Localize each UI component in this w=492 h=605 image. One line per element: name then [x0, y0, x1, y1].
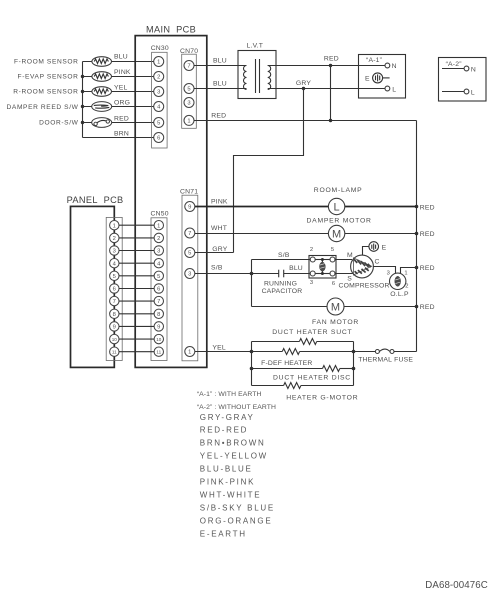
svg-text:L: L [392, 86, 396, 93]
wire S/B to relay pin2 [252, 259, 311, 261]
svg-text:THERMAL FUSE: THERMAL FUSE [358, 356, 413, 363]
sensor R-ROOM thermistor [92, 87, 112, 97]
svg-text:M: M [331, 302, 340, 314]
svg-text:RED: RED [211, 113, 226, 120]
node RED bottom junction [329, 119, 332, 122]
svg-text:MAIN PCB: MAIN PCB [146, 25, 196, 35]
node GRY junction [302, 87, 305, 90]
wire relay pin6 to compressor S [335, 273, 353, 275]
svg-text:RED: RED [324, 55, 339, 62]
wire RED LVT secondary top to A-1 N [268, 65, 385, 67]
svg-text:F-EVAP SENSOR: F-EVAP SENSOR [18, 74, 79, 81]
svg-text:PINK: PINK [114, 69, 131, 76]
connector CN30 [151, 45, 169, 148]
plug A-1 (with earth) [359, 55, 406, 99]
svg-text:RED: RED [420, 265, 435, 272]
svg-text:11: 11 [156, 350, 161, 355]
svg-text:FAN MOTOR: FAN MOTOR [312, 319, 359, 326]
node bus damper [415, 232, 419, 236]
svg-text:1: 1 [404, 270, 407, 276]
svg-text:GRY-GRAY: GRY-GRAY [200, 413, 255, 422]
svg-text:M: M [347, 252, 353, 259]
wire row1 to CN30-1 [83, 61, 154, 63]
wire GRY LVT secondary bottom to A-1 L [268, 88, 385, 90]
svg-text:7: 7 [113, 299, 116, 305]
svg-text:8: 8 [157, 312, 160, 318]
svg-text:CN71: CN71 [180, 188, 198, 195]
svg-text:CN30: CN30 [151, 45, 169, 52]
svg-text:8: 8 [113, 312, 116, 318]
svg-text:6: 6 [157, 287, 160, 293]
svg-text:C: C [375, 258, 380, 265]
svg-text:BLU-BLUE: BLU-BLUE [200, 465, 253, 474]
wire heater left vertical [251, 342, 253, 386]
svg-text:WHT-WHITE: WHT-WHITE [200, 491, 262, 500]
svg-text:E: E [365, 76, 370, 83]
svg-text:BRN: BRN [114, 131, 129, 138]
wire BRN bus to CN30-6 [83, 137, 154, 139]
wire PINK CN71-9 to bus (thick) [195, 206, 417, 208]
svg-text:9: 9 [113, 325, 116, 331]
svg-text:YEL: YEL [114, 84, 127, 91]
box MAIN PCB [135, 36, 207, 368]
svg-text:CAPACITOR: CAPACITOR [262, 288, 303, 295]
heater DUCT HEATER SUCT [252, 329, 354, 344]
svg-text:“A-2”: “A-2” [446, 61, 463, 68]
node heater right yel [352, 350, 356, 354]
svg-text:N: N [471, 66, 476, 73]
wire WHT CN71-7 to bus [195, 233, 417, 235]
sensor F-ROOM thermistor [92, 57, 112, 67]
wires PANEL to CN50 (11) [119, 225, 154, 352]
svg-text:CN70: CN70 [180, 48, 198, 55]
svg-text:5: 5 [157, 121, 160, 127]
svg-text:BLU: BLU [213, 81, 227, 88]
svg-text:DUCT HEATER SUCT: DUCT HEATER SUCT [272, 329, 352, 336]
svg-text:3: 3 [187, 101, 190, 107]
wire heater right vertical [353, 342, 355, 386]
svg-text:2: 2 [310, 247, 313, 253]
svg-text:“A-2” : WITHOUT EARTH: “A-2” : WITHOUT EARTH [197, 404, 276, 411]
node bus olp [415, 266, 419, 270]
node heater left yel [250, 350, 254, 354]
svg-text:ORG: ORG [114, 100, 130, 107]
svg-text:5: 5 [157, 274, 160, 280]
box PANEL PCB [71, 206, 115, 367]
svg-text:YEL: YEL [212, 345, 225, 352]
heater F-DEF HEATER [252, 349, 354, 368]
svg-text:3: 3 [157, 249, 160, 255]
svg-text:2: 2 [113, 236, 116, 242]
svg-text:3: 3 [387, 271, 390, 277]
svg-text:PINK-PINK: PINK-PINK [200, 478, 255, 487]
svg-text:5: 5 [331, 247, 334, 253]
earth E compressor [363, 242, 387, 255]
wire fan motor row [252, 306, 417, 308]
svg-text:10: 10 [156, 337, 162, 342]
svg-text:1: 1 [188, 350, 191, 356]
svg-text:2: 2 [157, 75, 160, 81]
switch DAMPER REED [92, 102, 112, 112]
fuse THERMAL FUSE [354, 349, 417, 363]
wire row2 to CN30-2 [83, 76, 154, 78]
svg-text:1: 1 [157, 60, 160, 66]
svg-text:5: 5 [187, 87, 190, 93]
wire common sensor bus [82, 62, 84, 138]
node heater left disc [250, 367, 254, 371]
sensor F-EVAP thermistor [92, 72, 112, 82]
svg-text:3: 3 [113, 249, 116, 255]
svg-text:DUCT HEATER DISC: DUCT HEATER DISC [273, 375, 351, 382]
svg-text:YEL-YELLOW: YEL-YELLOW [200, 452, 268, 461]
svg-text:7: 7 [188, 231, 191, 237]
svg-text:DAMPER REED S/W: DAMPER REED S/W [7, 104, 79, 111]
connector CN50 [151, 210, 169, 360]
svg-text:DA68-00476C: DA68-00476C [425, 580, 488, 591]
svg-text:BLU: BLU [213, 57, 227, 64]
connector CN70 [180, 48, 198, 129]
heater DUCT HEATER DISC [252, 366, 354, 382]
node bus-row2 [81, 75, 84, 78]
svg-text:RUNNING: RUNNING [264, 280, 297, 287]
svg-text:F-ROOM SENSOR: F-ROOM SENSOR [14, 59, 78, 66]
svg-text:ROOM-LAMP: ROOM-LAMP [314, 187, 363, 194]
svg-text:PINK: PINK [211, 199, 228, 206]
capacitor running [252, 265, 311, 295]
svg-text:7: 7 [157, 299, 160, 305]
svg-text:9: 9 [188, 205, 191, 211]
svg-text:6: 6 [157, 136, 160, 142]
svg-text:RED: RED [114, 115, 129, 122]
wire GRY vertical drop [234, 89, 304, 253]
wire S/B vertical [251, 260, 253, 307]
svg-text:F-DEF HEATER: F-DEF HEATER [261, 360, 312, 367]
svg-text:CN50: CN50 [151, 210, 169, 217]
wire row5 to CN30-5 [83, 122, 154, 124]
svg-text:3: 3 [157, 90, 160, 96]
wire compressor C to OLP and bus [373, 267, 395, 274]
svg-text:RED: RED [420, 304, 435, 311]
svg-text:1: 1 [113, 223, 116, 229]
svg-text:1: 1 [157, 223, 160, 229]
svg-text:7: 7 [187, 64, 190, 70]
svg-text:6: 6 [113, 287, 116, 293]
svg-text:3: 3 [188, 272, 191, 278]
svg-text:5: 5 [113, 274, 116, 280]
svg-text:E-EARTH: E-EARTH [200, 529, 247, 538]
svg-text:RED-RED: RED-RED [200, 426, 248, 435]
svg-text:S/B: S/B [278, 252, 290, 259]
svg-text:DAMPER MOTOR: DAMPER MOTOR [307, 217, 372, 224]
node bus fan [415, 305, 419, 309]
svg-text:L: L [334, 201, 340, 213]
svg-text:HEATER G-MOTOR: HEATER G-MOTOR [286, 394, 358, 401]
svg-text:BLU: BLU [114, 53, 128, 60]
heater G-MOTOR [252, 383, 359, 402]
svg-text:GRY: GRY [212, 246, 227, 253]
svg-text:RED: RED [420, 204, 435, 211]
wire BLU CN70-7 to LVT [194, 65, 247, 67]
wire row4 to CN30-4 [83, 106, 154, 108]
svg-text:BRN•BROWN: BRN•BROWN [200, 439, 266, 448]
node RED top junction [329, 64, 332, 67]
wire RED vertical drop [330, 66, 332, 121]
svg-text:11: 11 [112, 350, 117, 355]
svg-text:PANEL PCB: PANEL PCB [67, 195, 124, 205]
protector O.L.P [387, 270, 409, 298]
wire row3 to CN30-3 [83, 91, 154, 93]
motor M damper [328, 225, 344, 241]
plug A-2 (without earth) [439, 58, 487, 102]
svg-text:6: 6 [332, 281, 335, 287]
svg-text:S: S [347, 275, 352, 282]
svg-text:S/B-SKY BLUE: S/B-SKY BLUE [200, 504, 275, 513]
wire RED CN70-1 to right bus [194, 120, 417, 122]
wire relay pin5 to compressor M [335, 259, 352, 261]
svg-text:“A-1” : WITH EARTH: “A-1” : WITH EARTH [197, 391, 262, 398]
wire GRY CN71-5 stub [195, 252, 234, 254]
relay start (PTC) [309, 247, 336, 287]
motor compressor [351, 255, 374, 278]
lamp L room lamp [328, 198, 344, 214]
wire YEL CN71-1 to heater network [195, 351, 252, 353]
svg-text:BLU: BLU [289, 265, 303, 272]
svg-text:WHT: WHT [211, 225, 227, 232]
wire BLU CN70-5 to LVT [194, 88, 247, 90]
motor M fan [327, 298, 344, 315]
wire right bus vertical [416, 121, 418, 352]
svg-text:3: 3 [310, 280, 313, 286]
svg-text:10: 10 [112, 337, 118, 342]
transformer L.V.T [238, 42, 276, 98]
switch DOOR [92, 118, 112, 128]
node bus-row3 [81, 90, 84, 93]
wire S/B CN71-3 to junction [195, 273, 252, 275]
svg-text:9: 9 [157, 325, 160, 331]
node S/B junction [250, 272, 254, 276]
node bus room-lamp [415, 205, 419, 209]
svg-text:M: M [332, 228, 341, 240]
svg-text:O.L.P: O.L.P [390, 291, 409, 298]
svg-text:1: 1 [187, 119, 190, 125]
node bus-row4 [81, 105, 84, 108]
svg-text:S/B: S/B [211, 265, 223, 272]
svg-text:2: 2 [157, 236, 160, 242]
node heater right disc [352, 367, 356, 371]
connector PANEL (11 pins) [106, 217, 122, 360]
svg-text:L: L [471, 89, 475, 96]
svg-text:ORG-ORANGE: ORG-ORANGE [200, 517, 273, 526]
svg-text:5: 5 [188, 251, 191, 257]
svg-text:R-ROOM SENSOR: R-ROOM SENSOR [13, 89, 78, 96]
svg-text:2: 2 [405, 284, 408, 290]
svg-text:N: N [392, 63, 397, 70]
svg-text:GRY: GRY [296, 80, 311, 87]
svg-text:E: E [382, 244, 387, 251]
wire OLP pin1 to bus [401, 268, 417, 274]
svg-text:“A-1”: “A-1” [366, 57, 383, 64]
svg-text:L.V.T: L.V.T [247, 42, 264, 49]
svg-text:COMPRESSOR: COMPRESSOR [339, 283, 390, 290]
connector CN71 [180, 188, 198, 360]
svg-text:DOOR-S/W: DOOR-S/W [39, 120, 79, 127]
svg-text:RED: RED [420, 231, 435, 238]
node bus-row5 [81, 121, 84, 124]
